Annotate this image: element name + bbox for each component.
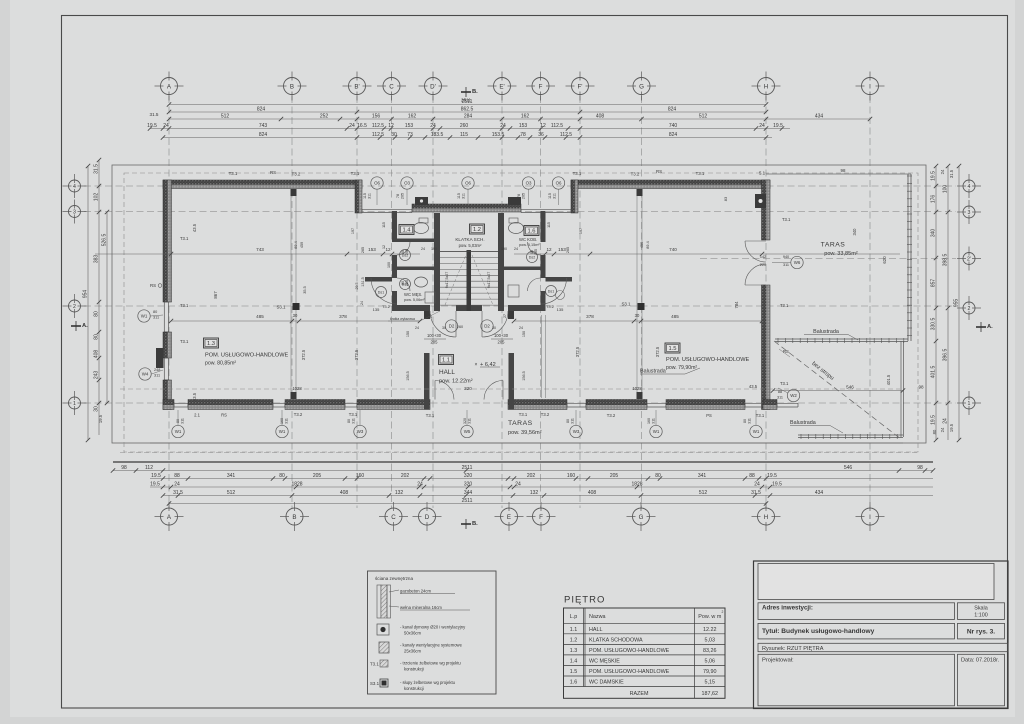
- svg-text:190: 190: [501, 247, 507, 251]
- svg-text:Ds2: Ds2: [529, 256, 535, 260]
- svg-text:1.3: 1.3: [570, 648, 578, 654]
- svg-text:S3.1: S3.1: [370, 681, 380, 686]
- svg-text:98: 98: [121, 465, 127, 471]
- svg-text:526.5: 526.5: [102, 234, 108, 247]
- svg-text:POM. USŁUGOWO-HANDLOWE: POM. USŁUGOWO-HANDLOWE: [589, 669, 670, 675]
- svg-text:Tytuł: Budynek usługowo-handlo: Tytuł: Budynek usługowo-handlowy: [762, 628, 875, 635]
- svg-text:I: I: [869, 83, 871, 90]
- svg-text:F: F: [539, 514, 543, 521]
- svg-text:POM. USŁUGOWO-HANDLOWE: POM. USŁUGOWO-HANDLOWE: [666, 357, 750, 363]
- svg-text:80: 80: [347, 419, 351, 423]
- svg-text:24: 24: [417, 481, 423, 487]
- svg-text:80: 80: [176, 419, 180, 423]
- svg-text:408: 408: [588, 490, 597, 496]
- svg-text:19.5: 19.5: [151, 473, 161, 479]
- svg-text:W4: W4: [142, 372, 149, 377]
- svg-text:115: 115: [547, 222, 551, 228]
- svg-text:30: 30: [391, 132, 397, 138]
- svg-text:320: 320: [464, 473, 473, 479]
- svg-text:546: 546: [846, 385, 854, 390]
- svg-text:24: 24: [943, 418, 949, 424]
- svg-text:A.: A.: [987, 324, 993, 330]
- svg-text:98: 98: [917, 465, 923, 471]
- svg-text:pow. 5,15m²: pow. 5,15m²: [519, 243, 540, 247]
- svg-text:T3.1: T3.1: [782, 217, 791, 222]
- svg-text:1028: 1028: [632, 386, 642, 391]
- svg-text:89.4: 89.4: [646, 241, 650, 248]
- svg-text:G: G: [639, 514, 644, 521]
- svg-text:24: 24: [754, 481, 760, 487]
- svg-text:156.5: 156.5: [522, 371, 526, 381]
- svg-text:43.5: 43.5: [192, 392, 197, 401]
- svg-text:372.5: 372.5: [575, 346, 580, 357]
- svg-text:135: 135: [373, 307, 380, 312]
- svg-text:gazobeton 24cm: gazobeton 24cm: [400, 589, 431, 594]
- svg-text:Ds1: Ds1: [548, 290, 554, 294]
- svg-text:T3.1: T3.1: [696, 171, 705, 176]
- svg-text:PIĘTRO: PIĘTRO: [564, 595, 605, 606]
- svg-text:Rysunek: RZUT PIĘTRA: Rysunek: RZUT PIĘTRA: [762, 646, 824, 652]
- svg-text:88: 88: [778, 390, 782, 394]
- svg-text:156: 156: [372, 113, 381, 119]
- svg-text:135: 135: [557, 307, 564, 312]
- svg-text:160: 160: [280, 418, 284, 424]
- svg-text:546: 546: [844, 465, 853, 471]
- svg-text:T3.2: T3.2: [294, 412, 303, 417]
- svg-text:D2: D2: [449, 324, 455, 329]
- svg-text:1828: 1828: [631, 481, 642, 487]
- svg-text:19.5: 19.5: [767, 473, 777, 479]
- svg-text:202: 202: [401, 473, 410, 479]
- svg-text:O3: O3: [526, 181, 532, 186]
- svg-text:24: 24: [360, 301, 364, 305]
- svg-text:KLATKA SCHODOWA: KLATKA SCHODOWA: [589, 637, 643, 643]
- svg-text:485: 485: [256, 314, 264, 319]
- svg-text:153: 153: [405, 123, 414, 129]
- svg-text:HALL: HALL: [439, 369, 455, 376]
- svg-text:102: 102: [94, 193, 100, 202]
- svg-text:pow. 79,90m²: pow. 79,90m²: [666, 365, 697, 371]
- svg-text:80: 80: [566, 419, 570, 423]
- svg-text:T3.2: T3.2: [292, 172, 301, 177]
- svg-text:pow. 5,06m²: pow. 5,06m²: [404, 298, 425, 302]
- svg-text:112.5: 112.5: [372, 123, 384, 129]
- svg-text:150: 150: [522, 331, 526, 337]
- svg-text:konstrukcji: konstrukcji: [404, 686, 424, 691]
- svg-text:743: 743: [259, 123, 268, 129]
- svg-text:265: 265: [566, 247, 570, 253]
- svg-text:183.5: 183.5: [431, 132, 444, 138]
- svg-text:24: 24: [940, 427, 945, 432]
- svg-text:- trzcienie żelbetowe wg proje: - trzcienie żelbetowe wg projektu: [400, 661, 461, 666]
- svg-text:T3.1: T3.1: [780, 303, 789, 308]
- svg-text:205: 205: [313, 473, 322, 479]
- svg-text:740: 740: [669, 247, 677, 252]
- svg-text:HALL: HALL: [589, 627, 603, 633]
- svg-text:88: 88: [749, 473, 755, 479]
- svg-text:1: 1: [968, 401, 971, 407]
- svg-text:153.5: 153.5: [492, 132, 505, 138]
- svg-text:W1: W1: [653, 429, 660, 434]
- svg-text:205: 205: [431, 340, 439, 345]
- svg-text:3: 3: [73, 209, 76, 215]
- svg-text:205: 205: [498, 340, 506, 345]
- svg-text:D: D: [425, 514, 430, 521]
- svg-text:Nr rys. 3.: Nr rys. 3.: [967, 629, 995, 636]
- svg-text:80: 80: [279, 473, 285, 479]
- svg-text:824: 824: [257, 106, 266, 112]
- svg-text:89.4: 89.4: [294, 241, 298, 248]
- svg-text:78: 78: [517, 194, 521, 198]
- svg-text:320: 320: [464, 386, 472, 391]
- svg-text:24: 24: [514, 247, 518, 251]
- svg-text:12: 12: [388, 123, 394, 129]
- svg-text:459: 459: [300, 242, 304, 248]
- svg-text:W5: W5: [464, 429, 471, 434]
- svg-text:512: 512: [227, 490, 236, 496]
- svg-text:383: 383: [94, 255, 100, 264]
- svg-text:B: B: [292, 514, 296, 521]
- svg-text:150: 150: [406, 331, 410, 337]
- svg-text:RS: RS: [783, 349, 789, 354]
- svg-text:80: 80: [94, 311, 100, 317]
- svg-text:205: 205: [610, 473, 619, 479]
- svg-text:Ds1: Ds1: [378, 291, 384, 295]
- svg-text:115: 115: [460, 132, 468, 138]
- svg-text:24: 24: [421, 247, 425, 251]
- svg-text:19.5: 19.5: [98, 414, 103, 423]
- svg-text:E': E': [499, 83, 504, 90]
- svg-text:2.1: 2.1: [194, 413, 200, 418]
- svg-text:311: 311: [468, 418, 472, 424]
- svg-text:2': 2': [967, 256, 971, 262]
- svg-text:30: 30: [492, 326, 496, 330]
- svg-text:30: 30: [94, 406, 100, 412]
- svg-text:862.5: 862.5: [461, 106, 474, 112]
- svg-text:31.5: 31.5: [949, 169, 954, 178]
- svg-text:Skala: Skala: [974, 606, 988, 612]
- svg-text:30: 30: [293, 313, 298, 318]
- svg-text:1.1: 1.1: [570, 627, 578, 633]
- svg-text:378: 378: [339, 314, 347, 319]
- svg-text:pow. 12.22m²: pow. 12.22m²: [439, 379, 473, 385]
- svg-text:311: 311: [352, 418, 356, 424]
- svg-text:1.2: 1.2: [570, 637, 578, 643]
- svg-text:131.5: 131.5: [361, 277, 365, 287]
- svg-text:T3.2: T3.2: [546, 304, 555, 309]
- svg-text:19.5: 19.5: [931, 415, 937, 425]
- svg-text:Projektował:: Projektował:: [762, 658, 794, 664]
- svg-text:160: 160: [356, 473, 365, 479]
- svg-text:1.2: 1.2: [473, 227, 481, 233]
- svg-text:311: 311: [571, 418, 575, 424]
- svg-text:27: 27: [503, 314, 507, 318]
- svg-text:162: 162: [521, 113, 530, 119]
- svg-text:19.5: 19.5: [772, 481, 782, 487]
- svg-text:T3.1: T3.1: [229, 171, 238, 176]
- svg-text:311: 311: [652, 418, 656, 424]
- svg-text:24: 24: [349, 123, 355, 129]
- svg-text:B': B': [354, 83, 359, 90]
- svg-text:512: 512: [699, 490, 708, 496]
- svg-text:220: 220: [760, 263, 766, 267]
- svg-text:100: 100: [943, 185, 949, 194]
- svg-text:RS: RS: [656, 169, 662, 174]
- svg-text:T3.1: T3.1: [349, 412, 358, 417]
- svg-text:1.1: 1.1: [442, 358, 450, 364]
- svg-text:100+30: 100+30: [427, 333, 442, 338]
- svg-text:197: 197: [579, 228, 583, 234]
- svg-text:16.5: 16.5: [357, 123, 367, 129]
- svg-text:W1: W1: [753, 429, 760, 434]
- svg-text:T3.2: T3.2: [541, 412, 550, 417]
- svg-text:401.5: 401.5: [886, 374, 891, 385]
- svg-text:5,03: 5,03: [705, 637, 716, 643]
- svg-text:O6: O6: [465, 181, 471, 186]
- svg-text:W1: W1: [175, 429, 182, 434]
- svg-text:T3.1: T3.1: [756, 413, 765, 418]
- svg-text:wełna mineralna 16cm: wełna mineralna 16cm: [400, 605, 442, 610]
- svg-text:2: 2: [722, 610, 724, 614]
- svg-text:311: 311: [154, 374, 160, 378]
- svg-text:WC MĘS.: WC MĘS.: [404, 292, 422, 297]
- svg-text:153: 153: [519, 123, 528, 129]
- svg-text:S3.1: S3.1: [276, 305, 286, 310]
- svg-text:24: 24: [500, 123, 506, 129]
- svg-text:C: C: [391, 514, 396, 521]
- svg-text:205: 205: [401, 193, 405, 199]
- svg-text:311: 311: [153, 316, 159, 320]
- svg-text:112.5: 112.5: [560, 132, 572, 138]
- svg-text:W1: W1: [279, 429, 286, 434]
- svg-text:344: 344: [464, 490, 473, 496]
- svg-text:T3.1: T3.1: [180, 339, 189, 344]
- svg-text:TARAS: TARAS: [508, 420, 533, 427]
- svg-text:D': D': [430, 83, 436, 90]
- svg-text:743: 743: [256, 247, 264, 252]
- svg-text:311: 311: [462, 193, 466, 199]
- svg-text:WC MĘSKIE: WC MĘSKIE: [589, 658, 620, 664]
- svg-text:197: 197: [351, 228, 355, 234]
- svg-text:T3.1: T3.1: [426, 413, 435, 418]
- svg-text:L.p: L.p: [570, 614, 578, 620]
- svg-text:T3.2: T3.2: [631, 172, 640, 177]
- svg-text:31.5: 31.5: [751, 490, 761, 496]
- svg-text:31.5: 31.5: [173, 490, 183, 496]
- svg-text:330.5: 330.5: [931, 318, 937, 331]
- svg-text:T3.1: T3.1: [180, 303, 189, 308]
- svg-text:940: 940: [783, 255, 789, 259]
- svg-text:9x17,5x27: 9x17,5x27: [487, 272, 491, 289]
- svg-text:115: 115: [382, 222, 386, 228]
- svg-text:RS: RS: [150, 283, 156, 288]
- svg-text:396.5: 396.5: [943, 349, 949, 362]
- svg-text:187,62: 187,62: [702, 691, 719, 697]
- svg-text:43.5: 43.5: [192, 223, 197, 232]
- svg-text:WC KOB.: WC KOB.: [519, 237, 537, 242]
- svg-text:ściana zewnętrzna: ściana zewnętrzna: [375, 576, 413, 581]
- svg-text:I: I: [869, 514, 871, 521]
- svg-text:98: 98: [841, 168, 846, 173]
- svg-text:30: 30: [635, 313, 640, 318]
- svg-text:80: 80: [655, 473, 661, 479]
- svg-text:12: 12: [546, 247, 552, 252]
- svg-text:43.5: 43.5: [749, 384, 758, 389]
- svg-text:265: 265: [361, 247, 365, 253]
- svg-text:Adres inwestycji:: Adres inwestycji:: [762, 605, 813, 612]
- svg-text:311: 311: [553, 193, 557, 199]
- svg-text:156.5: 156.5: [406, 371, 410, 381]
- svg-text:B.: B.: [472, 89, 478, 95]
- svg-text:434: 434: [815, 490, 824, 496]
- svg-text:512: 512: [699, 113, 708, 119]
- svg-text:78: 78: [396, 194, 400, 198]
- svg-text:5.1: 5.1: [759, 171, 766, 176]
- svg-text:160: 160: [647, 418, 651, 424]
- svg-text:2511: 2511: [462, 498, 473, 504]
- svg-text:O6: O6: [374, 181, 380, 186]
- svg-text:408: 408: [94, 350, 100, 359]
- svg-text:1.6: 1.6: [570, 680, 578, 686]
- svg-text:243: 243: [94, 371, 100, 380]
- svg-text:T3.1: T3.1: [573, 171, 582, 176]
- svg-text:9x17,5x27: 9x17,5x27: [445, 272, 449, 289]
- svg-text:824: 824: [259, 132, 268, 138]
- svg-text:31.5: 31.5: [150, 112, 159, 117]
- svg-text:311: 311: [181, 418, 185, 424]
- svg-text:434: 434: [815, 113, 824, 119]
- svg-text:115: 115: [363, 193, 367, 199]
- svg-text:73: 73: [407, 132, 413, 138]
- svg-text:1828: 1828: [291, 481, 302, 487]
- svg-text:50x36cm: 50x36cm: [404, 631, 422, 636]
- svg-text:408: 408: [340, 490, 349, 496]
- svg-text:740: 740: [669, 123, 678, 129]
- svg-text:19.5: 19.5: [949, 423, 954, 432]
- svg-text:30: 30: [442, 326, 446, 330]
- svg-text:340: 340: [931, 229, 937, 238]
- svg-text:29.5: 29.5: [355, 283, 359, 290]
- svg-text:25x36cm: 25x36cm: [404, 649, 422, 654]
- svg-text:459: 459: [640, 242, 644, 248]
- svg-text:24: 24: [163, 123, 169, 129]
- svg-text:202: 202: [527, 473, 536, 479]
- svg-text:POM. USŁUGOWO-HANDLOWE: POM. USŁUGOWO-HANDLOWE: [205, 353, 289, 359]
- svg-text:W2: W2: [790, 393, 797, 398]
- svg-text:T3.2: T3.2: [382, 304, 391, 309]
- svg-text:1.6: 1.6: [527, 229, 535, 235]
- svg-text:24: 24: [515, 481, 521, 487]
- svg-text:G: G: [639, 83, 644, 90]
- svg-text:112.5: 112.5: [372, 132, 384, 138]
- svg-text:5,15: 5,15: [705, 680, 716, 686]
- svg-text:3: 3: [968, 210, 971, 216]
- svg-text:100+30: 100+30: [494, 333, 509, 338]
- svg-text:284: 284: [464, 113, 473, 119]
- svg-text:4: 4: [968, 184, 971, 190]
- svg-text:Balustrada: Balustrada: [640, 369, 666, 375]
- svg-text:372.5: 372.5: [354, 349, 359, 360]
- svg-text:311: 311: [777, 396, 783, 400]
- svg-text:24: 24: [430, 123, 436, 129]
- svg-text:Balustrada: Balustrada: [813, 329, 839, 335]
- svg-text:398.5: 398.5: [943, 254, 949, 267]
- svg-text:24: 24: [759, 123, 765, 129]
- svg-text:80: 80: [94, 334, 100, 340]
- svg-text:1:100: 1:100: [974, 613, 988, 619]
- svg-text:162: 162: [408, 113, 417, 119]
- svg-text:12: 12: [382, 245, 386, 249]
- svg-text:PS: PS: [706, 413, 712, 418]
- svg-text:512: 512: [221, 113, 230, 119]
- svg-text:O6: O6: [556, 181, 562, 186]
- svg-text:12: 12: [385, 247, 391, 252]
- svg-text:401.5: 401.5: [931, 366, 937, 379]
- svg-text:T3.2: T3.2: [607, 413, 616, 418]
- svg-text:115: 115: [457, 193, 461, 199]
- svg-text:Nazwa: Nazwa: [589, 614, 605, 620]
- svg-text:176: 176: [931, 195, 937, 204]
- svg-text:79,90: 79,90: [703, 669, 717, 675]
- svg-text:153: 153: [368, 247, 376, 252]
- svg-text:B: B: [290, 83, 294, 90]
- svg-text:TARAS: TARAS: [821, 242, 846, 249]
- svg-text:H: H: [764, 514, 768, 521]
- svg-text:2511: 2511: [462, 465, 473, 471]
- svg-text:C: C: [389, 83, 394, 90]
- svg-text:205: 205: [405, 280, 409, 286]
- svg-text:1.5: 1.5: [668, 346, 676, 352]
- svg-text:19.5: 19.5: [147, 123, 157, 129]
- svg-text:E: E: [507, 514, 511, 521]
- svg-text:132: 132: [395, 490, 404, 496]
- svg-text:T3.1: T3.1: [351, 171, 360, 176]
- svg-text:pow. 39,56m²: pow. 39,56m²: [508, 430, 542, 436]
- svg-text:19.5: 19.5: [931, 171, 937, 181]
- svg-text:- kanały wentylacyjne systemow: - kanały wentylacyjne systemowe: [400, 643, 463, 648]
- svg-text:115: 115: [548, 193, 552, 199]
- svg-text:311: 311: [285, 418, 289, 424]
- svg-text:205: 205: [522, 193, 526, 199]
- svg-text:112.5: 112.5: [551, 123, 563, 129]
- svg-text:311: 311: [783, 263, 789, 267]
- svg-text:24: 24: [174, 481, 180, 487]
- svg-text:824: 824: [669, 132, 678, 138]
- svg-text:320: 320: [464, 481, 473, 487]
- svg-text:W1: W1: [141, 314, 148, 319]
- svg-text:80: 80: [743, 419, 747, 423]
- svg-text:S3.1: S3.1: [621, 302, 631, 307]
- svg-text:83,26: 83,26: [703, 648, 717, 654]
- svg-text:1028: 1028: [292, 386, 302, 391]
- svg-text:1.3: 1.3: [207, 341, 215, 347]
- svg-text:955: 955: [954, 299, 960, 308]
- svg-text:954: 954: [83, 290, 89, 299]
- svg-text:T3.1: T3.1: [180, 236, 189, 241]
- svg-text:408: 408: [596, 113, 605, 119]
- svg-text:24: 24: [415, 326, 419, 330]
- svg-text:A.: A.: [82, 323, 88, 329]
- svg-text:372.5: 372.5: [655, 346, 660, 357]
- svg-text:19.5: 19.5: [773, 123, 783, 129]
- svg-text:80: 80: [932, 429, 937, 434]
- svg-text:160: 160: [567, 473, 576, 479]
- svg-text:260: 260: [460, 123, 469, 129]
- svg-text:867: 867: [213, 291, 218, 299]
- svg-text:88: 88: [174, 473, 180, 479]
- svg-text:2511: 2511: [462, 99, 473, 105]
- svg-text:RS: RS: [221, 413, 227, 418]
